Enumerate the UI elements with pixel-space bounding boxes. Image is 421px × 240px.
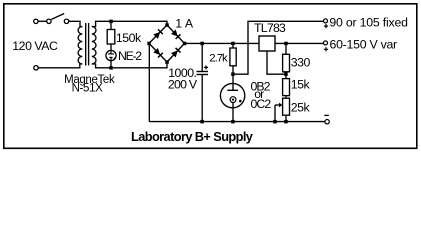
svg-text:200 V: 200 V bbox=[168, 77, 198, 91]
terminal: minus bbox=[325, 120, 329, 124]
svg-text:15k: 15k bbox=[291, 78, 311, 92]
resistor 150k bbox=[110, 21, 112, 29]
switch S1 pole bbox=[47, 19, 51, 23]
node: bridge bottom bbox=[165, 60, 169, 64]
node: 2.7k top bbox=[231, 42, 235, 46]
svg-text:2.7k: 2.7k bbox=[209, 53, 228, 65]
tube gas dot bbox=[239, 100, 242, 103]
node: junction NE-2 bottom bbox=[109, 66, 113, 70]
node: tube bottom bbox=[231, 120, 235, 124]
resistor 2.7k bbox=[232, 43, 234, 48]
switch S1 blade bbox=[51, 14, 64, 20]
wire secondary top bbox=[92, 21, 167, 26]
cap + polarity bbox=[204, 66, 208, 68]
node: bridge right bbox=[183, 42, 187, 46]
node: output junction bbox=[284, 42, 288, 46]
terminal: 60-150 var bbox=[324, 41, 328, 45]
plus sign fixed bbox=[324, 25, 328, 27]
tube cathode bbox=[230, 97, 236, 103]
wire bbox=[38, 20, 46, 22]
svg-text:25k: 25k bbox=[291, 100, 311, 114]
wire ground rail bbox=[149, 121, 325, 123]
node: chain bottom bbox=[284, 120, 288, 124]
svg-text:90 or 105 fixed: 90 or 105 fixed bbox=[329, 16, 408, 30]
diode D3 (left-bottom arm) bbox=[153, 48, 163, 58]
svg-text:330: 330 bbox=[291, 55, 311, 69]
border frame bbox=[4, 4, 417, 149]
node: bridge left bbox=[147, 42, 151, 46]
svg-text:0C2: 0C2 bbox=[251, 97, 272, 111]
plus sign var bbox=[324, 48, 328, 50]
transformer T1 secondary winding bbox=[92, 27, 96, 65]
terminal: 120VAC top bbox=[34, 19, 38, 23]
svg-text:TL783: TL783 bbox=[254, 21, 286, 35]
svg-text:120 VAC: 120 VAC bbox=[12, 39, 58, 53]
resistor 330 bbox=[285, 43, 287, 54]
node: cap bottom bbox=[200, 120, 204, 124]
svg-text:N-51X: N-51X bbox=[72, 83, 104, 95]
wire NE-2 to bottom bbox=[110, 61, 112, 68]
svg-text:1 A: 1 A bbox=[175, 16, 194, 30]
minus sign bbox=[324, 114, 329, 116]
transformer core bbox=[85, 23, 87, 66]
svg-text:150k: 150k bbox=[116, 31, 142, 45]
node: wiper to rail bbox=[273, 120, 277, 124]
resistor 15k bbox=[283, 79, 290, 96]
wire TL783 adj bbox=[267, 51, 286, 74]
wire + rail bbox=[185, 42, 260, 44]
tube cathode lead bbox=[232, 103, 234, 122]
pot wiper arrow bbox=[275, 104, 280, 106]
diode D1 (left-top arm) bbox=[153, 29, 163, 39]
wire primary bottom bbox=[38, 64, 82, 68]
terminal: 120VAC bottom bbox=[34, 66, 38, 70]
node: adj junction bbox=[284, 72, 288, 76]
neon lamp NE-2 bbox=[106, 50, 116, 60]
svg-text:Laboratory B+ Supply: Laboratory B+ Supply bbox=[131, 129, 254, 144]
diode D4 (bottom-right arm) bbox=[171, 48, 181, 58]
node: junction 150k top bbox=[109, 20, 113, 24]
wire bridge minus drop bbox=[148, 43, 150, 121]
svg-text:60-150 V var: 60-150 V var bbox=[330, 38, 398, 52]
diode D2 (top-right arm) bbox=[171, 29, 181, 39]
svg-text:NE-2: NE-2 bbox=[118, 49, 142, 63]
node: bridge top bbox=[165, 23, 169, 27]
tube plate bar bbox=[227, 89, 238, 91]
switch S1 throw bbox=[64, 19, 68, 23]
wire secondary bottom bbox=[92, 62, 167, 68]
bridge rectifier arms bbox=[149, 25, 167, 43]
node: 2.7k bottom / tube top bbox=[231, 72, 235, 76]
transformer T1 primary winding bbox=[78, 27, 82, 65]
potentiometer 25k bbox=[283, 98, 290, 115]
node: cap top bbox=[200, 42, 204, 46]
tube V1 0B2 bbox=[232, 74, 234, 90]
terminal: 90/105 fixed bbox=[324, 19, 328, 23]
wire to transformer primary bbox=[69, 21, 82, 26]
wire to fixed output bbox=[233, 21, 324, 74]
wire TL783 out bbox=[275, 42, 324, 44]
capacitor C1 1000uF bbox=[201, 43, 203, 71]
